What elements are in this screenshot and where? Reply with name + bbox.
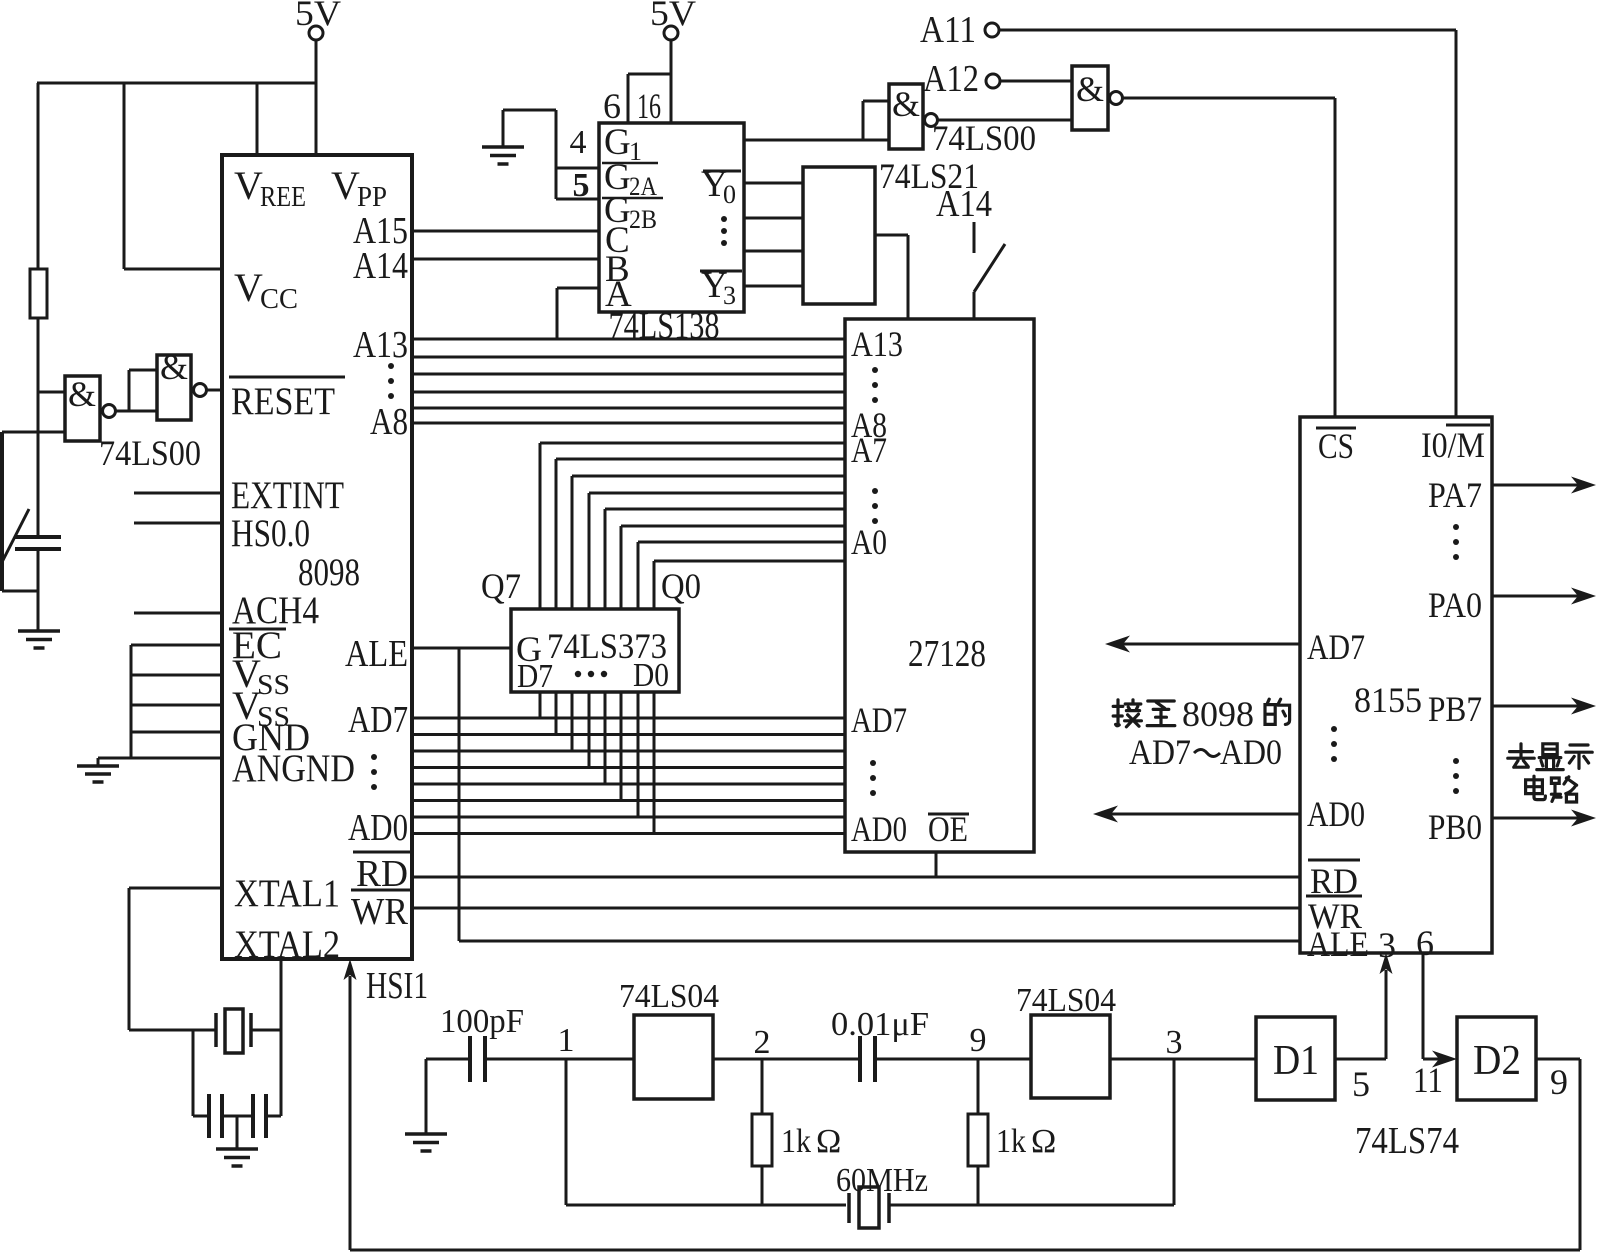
label 1k ohm (second)	[996, 1123, 1056, 1160]
wire Y3 to 74LS21	[744, 285, 803, 288]
svg-text:V: V	[234, 265, 263, 310]
svg-text:D2: D2	[1473, 1038, 1521, 1084]
label A13 (27128)	[851, 324, 903, 364]
wire sensor cap to ground	[37, 549, 40, 631]
wire Y1 to 74LS21	[744, 217, 803, 220]
wire VCC branch	[124, 83, 222, 269]
label HSI1	[366, 965, 428, 1007]
wire A11 to 8155 IO/M	[999, 30, 1456, 417]
label pin 9	[1550, 1062, 1568, 1102]
dots PA (8155)	[1453, 524, 1459, 560]
label G2B (active low)	[604, 190, 657, 234]
label RESET pin (active low)	[229, 377, 345, 423]
label (Chinese) connect-to-8098 AD7~AD0	[1113, 694, 1289, 772]
label A7 (27128)	[851, 430, 887, 470]
label PA7	[1428, 475, 1482, 515]
svg-text:AD7: AD7	[851, 700, 907, 740]
label 100pF	[440, 1003, 524, 1040]
label VSS pin	[232, 651, 290, 701]
svg-text:1: 1	[558, 1022, 575, 1059]
crystal Y2 60MHz	[849, 1187, 889, 1228]
wire A15 to C input	[412, 230, 599, 233]
label ALE pin	[345, 633, 408, 675]
label AD7 pin	[348, 699, 408, 741]
svg-text:5V: 5V	[650, 0, 696, 33]
label WR (8155, active low)	[1306, 896, 1362, 936]
label AD0 (8155)	[1307, 794, 1365, 834]
terminal A11	[920, 9, 999, 51]
wire U5A output to U5B	[938, 119, 1072, 122]
resistor R3 1k	[968, 1114, 988, 1166]
svg-text:AD7: AD7	[348, 699, 408, 741]
ground (left rail)	[18, 631, 60, 648]
label RD pin (active low)	[353, 852, 410, 895]
label pin 11	[1413, 1060, 1443, 1100]
svg-text:A13: A13	[851, 324, 903, 364]
wire Y2 to 74LS21	[744, 250, 803, 253]
label 8155	[1354, 680, 1422, 720]
wire enables vertical	[556, 110, 599, 199]
svg-text:2A: 2A	[629, 172, 657, 201]
wire OE to RD line	[935, 852, 938, 877]
label 74LS74	[1355, 1120, 1459, 1162]
wire HSI1 (feedback to 8098)	[344, 959, 357, 1250]
label AD0 pin	[348, 807, 408, 849]
label 74LS138	[609, 305, 720, 347]
svg-text:PP: PP	[357, 182, 387, 213]
label pin 6	[603, 86, 621, 126]
wire 100pF to 74LS04 (node 1)	[487, 1058, 634, 1061]
inverter U9B 74LS04 box	[1031, 1015, 1110, 1098]
label EC pin (active low)	[229, 624, 286, 667]
wire U1A output to U1B inputs	[116, 370, 157, 411]
wire U9B out to D1 (node 3)	[1110, 1058, 1256, 1061]
svg-text:RESET: RESET	[231, 380, 335, 423]
wire A14 to B input	[412, 258, 599, 261]
wire crystal to XTAL2 drop	[251, 1029, 281, 1032]
svg-text:Q0: Q0	[661, 566, 701, 606]
svg-text:16: 16	[637, 86, 661, 126]
capacitor C2	[209, 1094, 222, 1138]
wire left rail to sensor cap	[37, 318, 40, 536]
label pin 16	[637, 86, 661, 126]
label AD0 (27128)	[851, 809, 907, 849]
wire RD line (8098 to 8155)	[412, 876, 1300, 879]
wire PB0 out arrow	[1492, 810, 1596, 827]
svg-text:SS: SS	[257, 670, 290, 701]
NAND gate U1B 74LS00	[157, 347, 207, 420]
capacitor C5 0.01uF	[860, 1036, 875, 1082]
svg-text:ALE: ALE	[345, 633, 408, 675]
svg-text:3: 3	[723, 281, 736, 310]
label Q0	[661, 566, 701, 606]
label node 1	[558, 1022, 575, 1059]
svg-text:5: 5	[573, 167, 590, 204]
wire HS0.0 stub	[134, 522, 222, 525]
label VPP pin	[331, 163, 387, 213]
svg-text:8155: 8155	[1354, 680, 1422, 720]
wire C5 to node 9	[877, 1058, 1031, 1061]
label 27128	[908, 633, 986, 675]
label PA0	[1428, 585, 1482, 625]
NAND gate U5A 74LS00 (inverter)	[889, 84, 938, 149]
svg-text:74LS74: 74LS74	[1355, 1120, 1459, 1162]
label OE (active low)	[928, 809, 969, 849]
NAND gate U1A 74LS00	[65, 374, 116, 441]
svg-text:9: 9	[1550, 1062, 1568, 1102]
svg-text:74LS138: 74LS138	[609, 305, 720, 347]
NAND gate U5B 74LS00	[1072, 66, 1123, 130]
wire top-left horizontal rail	[37, 82, 316, 85]
svg-text:AD0: AD0	[1220, 732, 1282, 772]
svg-text:2B: 2B	[629, 205, 657, 234]
ground (74LS138 enables)	[482, 110, 556, 164]
wire between load caps	[222, 1115, 253, 1118]
label WR pin (active low)	[351, 890, 410, 933]
svg-text:D1: D1	[1273, 1038, 1319, 1084]
label 74LS04 (first)	[619, 978, 719, 1015]
label 60MHz	[836, 1162, 928, 1199]
switch S1 A14	[974, 222, 1005, 319]
dots A13..A8 (27128)	[872, 367, 878, 403]
label pin 6	[1416, 923, 1434, 963]
wire Y0 to 74LS21	[744, 182, 803, 185]
dots A13..A8 (8098)	[388, 363, 394, 399]
svg-text:1: 1	[629, 137, 642, 166]
flip-flop D1 box	[1256, 1017, 1335, 1100]
svg-text:4: 4	[570, 124, 587, 161]
wire U5A input tie	[863, 101, 889, 140]
ground (crystal caps)	[216, 1149, 258, 1166]
wire into 100pF	[426, 1058, 468, 1061]
label ALE (8155)	[1307, 924, 1369, 964]
label G1	[602, 122, 658, 166]
label VREE pin	[234, 163, 306, 213]
svg-text:A7: A7	[851, 430, 887, 470]
wire D2 output feedback to HSI1	[350, 1059, 1580, 1250]
label node 3	[1166, 1024, 1183, 1061]
svg-text:6: 6	[1416, 923, 1434, 963]
wire node 1 down	[565, 1059, 568, 1205]
svg-text:2: 2	[754, 1024, 771, 1061]
svg-text:HS0.0: HS0.0	[231, 512, 310, 555]
svg-text:9: 9	[970, 1022, 987, 1059]
svg-text:V: V	[331, 163, 360, 208]
wire bus A13..A8 (8098 to 27128)	[412, 339, 845, 423]
svg-text:A11: A11	[920, 9, 976, 51]
label AD7 (27128)	[851, 700, 907, 740]
label 8098	[298, 551, 360, 594]
wire WR line (8098 to 8155)	[412, 907, 1300, 910]
svg-text:AD7: AD7	[1307, 627, 1365, 667]
and-gate U4 74LS21 box	[803, 167, 875, 304]
inverter U9A 74LS04 box	[634, 1015, 713, 1099]
label 0.01uF	[831, 1006, 929, 1043]
svg-text:A14: A14	[353, 245, 408, 287]
dots PB (8155)	[1453, 758, 1459, 794]
wire 74LS138 G1-row to NAND (top right)	[744, 139, 889, 142]
dots A7..A0 (27128)	[872, 488, 878, 524]
label Y0 output (active low)	[701, 164, 741, 209]
wire AD7 arrow (to 8098 bus)	[1105, 636, 1300, 653]
svg-text:&: &	[68, 374, 96, 414]
svg-text:A8: A8	[370, 401, 408, 443]
label A8 pin	[370, 401, 408, 443]
label VCC pin	[234, 265, 298, 315]
wire caps midpoint to ground	[236, 1116, 239, 1149]
svg-text:0: 0	[723, 180, 736, 209]
label Q7	[481, 566, 521, 606]
power terminal 5V (center)	[650, 0, 696, 40]
label A8 (27128)	[851, 405, 887, 445]
label ACH4 pin	[232, 589, 319, 632]
wire D7..D0 taps to AD bus (staircase)	[540, 692, 654, 834]
capacitor C1 (sensor, with arrow)	[0, 509, 61, 566]
label node 9	[970, 1022, 987, 1059]
power terminal 5V (left)	[295, 0, 341, 40]
resistor R1 (pull-up)	[30, 269, 47, 318]
dots AD (8155)	[1331, 726, 1337, 762]
capacitor C4 100pF	[470, 1036, 485, 1082]
wire node 2 down to resistor	[761, 1059, 764, 1114]
wire left cap branch	[193, 1030, 209, 1116]
wire rail to U1A input	[38, 391, 65, 394]
label A13 pin	[353, 324, 408, 366]
wire bus AD7..AD0 (8098 to 27128)	[412, 718, 845, 834]
label (Chinese) to-display-circuit	[1508, 744, 1592, 802]
svg-text:AD0: AD0	[851, 809, 907, 849]
label I0/M (active low M)	[1421, 425, 1490, 465]
svg-text:11: 11	[1413, 1060, 1443, 1100]
label HS0.0 pin	[231, 512, 310, 555]
svg-text:ALE: ALE	[1307, 924, 1369, 964]
svg-text:V: V	[234, 163, 263, 208]
label C input	[605, 220, 630, 261]
wire 5V left vertical to 8098 VPP	[315, 40, 318, 155]
wire A13 tap to A input	[557, 288, 599, 339]
svg-text:REE: REE	[260, 182, 306, 213]
wire resistor R2 to bottom rail	[761, 1166, 764, 1205]
peripheral U8 8155 box	[1300, 417, 1492, 953]
label XTAL2 pin	[234, 923, 340, 966]
label pin 3	[1378, 925, 1396, 965]
wire node 9 down to resistor	[977, 1059, 980, 1114]
wire branch to NAND input (left loop)	[2, 432, 65, 591]
wire branch to pin 6	[628, 74, 671, 123]
wire PB7 out arrow	[1492, 698, 1596, 715]
wire ALE down to 8155	[459, 648, 1300, 941]
wire ACH4 stub	[134, 612, 222, 615]
label pin 4	[570, 124, 587, 161]
svg-text:&: &	[160, 347, 188, 387]
svg-text:D7: D7	[517, 658, 553, 695]
wire Q7..Q0 to 27128 A7..A0 (staircase)	[540, 443, 845, 609]
ground (ANGND)	[77, 766, 119, 782]
svg-text:D0: D0	[633, 657, 669, 694]
label Y3 output (active low)	[700, 265, 742, 310]
svg-text:AD0: AD0	[1307, 794, 1365, 834]
label D7 ... D0	[517, 657, 669, 695]
svg-text:AD7: AD7	[1129, 732, 1191, 772]
svg-text:1k: 1k	[781, 1123, 811, 1160]
label pin 5	[573, 167, 590, 204]
svg-text:8098: 8098	[1182, 694, 1254, 734]
svg-text:5V: 5V	[295, 0, 341, 33]
wire U1B output to RESET	[207, 389, 222, 392]
svg-text:A14: A14	[936, 183, 992, 225]
wire ANGND	[98, 758, 222, 766]
wire PA0 out arrow	[1492, 588, 1596, 605]
wire 74LS21 output to 27128 CS	[875, 235, 908, 319]
svg-text:3: 3	[1166, 1024, 1183, 1061]
label 74LS21	[879, 156, 979, 196]
label XTAL1 pin	[234, 872, 340, 915]
svg-text:I0/M: I0/M	[1421, 425, 1485, 465]
svg-text:A13: A13	[353, 324, 408, 366]
label 74LS04 (second)	[1016, 982, 1116, 1019]
decoder U3 74LS138 box	[599, 123, 744, 312]
svg-text:PA0: PA0	[1428, 585, 1482, 625]
wire XTAL1	[129, 888, 222, 1030]
svg-text:100pF: 100pF	[440, 1003, 524, 1040]
ground (100pF)	[405, 1059, 447, 1151]
label RD (8155, active low)	[1308, 860, 1360, 901]
svg-text:EXTINT: EXTINT	[231, 474, 344, 517]
svg-text:OE: OE	[928, 809, 968, 849]
svg-text:A0: A0	[851, 522, 887, 562]
label A input	[605, 274, 632, 315]
svg-text:1k: 1k	[996, 1123, 1026, 1160]
svg-text:Q7: Q7	[481, 566, 521, 606]
svg-text:Ω: Ω	[1031, 1123, 1056, 1160]
svg-text:74LS00: 74LS00	[99, 433, 201, 473]
memory U6 27128 box	[845, 319, 1034, 852]
svg-text:&: &	[1076, 69, 1104, 109]
label PB7	[1428, 689, 1482, 729]
label node 2	[754, 1024, 771, 1061]
label ANGND pin	[232, 747, 355, 790]
wire PA7 out arrow	[1492, 477, 1596, 494]
svg-text:&: &	[892, 84, 920, 124]
label CS (active low)	[1316, 426, 1356, 466]
dots AD7..AD0 (27128)	[870, 760, 876, 796]
wire A12 to NAND U5B	[1000, 80, 1072, 83]
label pin 5	[1352, 1064, 1370, 1104]
wire D1 output up to 8155 ALE pin3	[1335, 953, 1393, 1059]
label EXTINT pin	[231, 474, 344, 517]
wire bottom rail left	[566, 1204, 846, 1207]
svg-text:0.01μF: 0.01μF	[831, 1006, 929, 1043]
svg-text:74LS04: 74LS04	[619, 978, 719, 1015]
wire right cap to XTAL2	[266, 1115, 281, 1118]
svg-text:AD0: AD0	[348, 807, 408, 849]
wire bottom rail right	[889, 1204, 1174, 1207]
svg-text:8098: 8098	[298, 551, 360, 594]
label 74LS00 (left)	[99, 433, 201, 473]
label A0 (27128)	[851, 522, 887, 562]
svg-text:PB0: PB0	[1428, 807, 1482, 847]
flip-flop D2 box	[1457, 1017, 1536, 1100]
svg-text:WR: WR	[351, 891, 409, 933]
wire ALE to G	[412, 647, 511, 650]
resistor R2 1k	[752, 1114, 772, 1166]
svg-text:A12: A12	[923, 58, 979, 100]
dots AD7..AD0 (8098)	[371, 754, 377, 790]
wire left rail upper	[37, 83, 40, 269]
wire EC/VSS/VSS/GND stubs to ANGND ground	[131, 645, 222, 758]
wire U5B output to 8155 CS	[1123, 98, 1335, 417]
svg-text:27128: 27128	[908, 633, 986, 675]
svg-text:PB7: PB7	[1428, 689, 1482, 729]
label G 74LS373	[516, 626, 667, 669]
label A14 (switch)	[936, 183, 992, 225]
svg-text:HSI1: HSI1	[366, 965, 428, 1007]
svg-text:XTAL1: XTAL1	[234, 872, 340, 915]
label G2A (active low)	[602, 157, 663, 201]
crystal Y1	[216, 1009, 251, 1053]
svg-text:CS: CS	[1318, 426, 1354, 466]
terminal A12	[923, 58, 1000, 100]
wire U9A out to node 2	[713, 1058, 858, 1061]
svg-text:XTAL2: XTAL2	[234, 923, 340, 966]
label A15 pin	[353, 210, 408, 252]
label PB0	[1428, 807, 1482, 847]
wire EXTINT stub	[134, 492, 222, 495]
label B input	[605, 249, 630, 290]
label 1k ohm (first)	[781, 1123, 841, 1160]
capacitor C3	[253, 1094, 266, 1138]
svg-text:5: 5	[1352, 1064, 1370, 1104]
wire resistor R3 to bottom rail	[977, 1166, 980, 1205]
svg-text:CC: CC	[260, 284, 298, 315]
op-amp U2 8098 microcontroller box	[222, 155, 412, 959]
wire node 3 down	[1173, 1059, 1176, 1205]
wire 8155 pin6 down to D2 clock	[1423, 953, 1457, 1068]
label VSS pin 2	[232, 683, 290, 733]
wire AD0 arrow (to 8098 bus)	[1093, 806, 1300, 823]
label 74LS00 (right)	[932, 118, 1036, 158]
svg-text:ANGND: ANGND	[232, 747, 355, 790]
wire XTAL2 vertical	[280, 959, 283, 1116]
wire 5V to 74LS138 pin16	[670, 40, 673, 123]
latch U7 74LS373 box	[511, 609, 679, 692]
label AD7 (8155)	[1307, 627, 1365, 667]
label A14 pin	[353, 245, 408, 287]
dots Y outputs	[721, 216, 727, 246]
svg-text:Ω: Ω	[816, 1123, 841, 1160]
svg-text:74LS00: 74LS00	[932, 118, 1036, 158]
wire VREE feed	[256, 83, 259, 155]
label GND pin	[232, 716, 310, 759]
svg-text:PA7: PA7	[1428, 475, 1482, 515]
svg-text:6: 6	[603, 86, 621, 126]
